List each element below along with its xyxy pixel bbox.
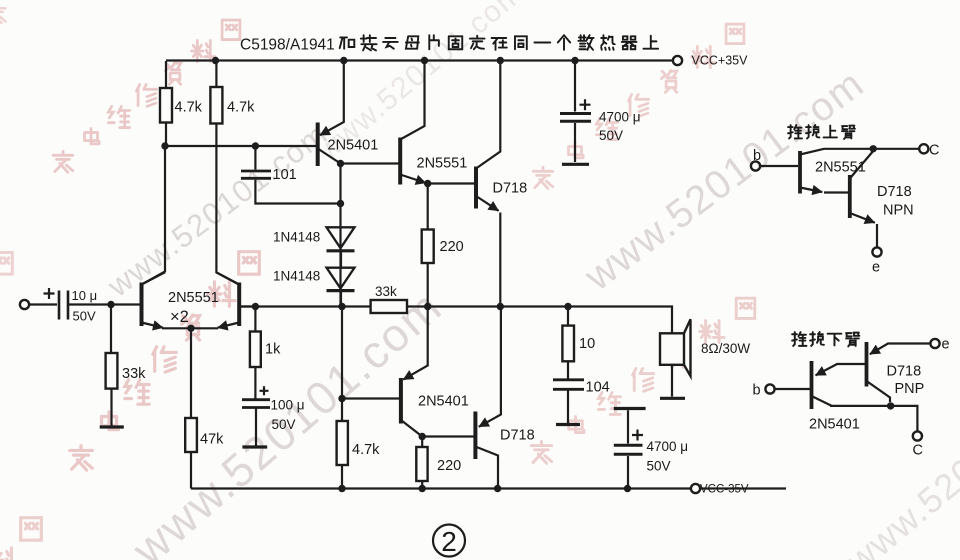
resistor R8 4.7k bottom bbox=[341, 399, 343, 489]
resistor R2 4.7k bbox=[216, 61, 239, 285]
transistor Q4b 2N5551 diff right bbox=[237, 283, 241, 327]
svg-text:b: b bbox=[753, 383, 761, 399]
watermark pink partial bottom-left corner bbox=[0, 518, 41, 560]
resistor R9 220 bottom bbox=[421, 437, 423, 489]
transistor Q3 D718 top bbox=[474, 167, 478, 209]
transistor Q6 D718 bottom bbox=[473, 412, 477, 460]
plus sign C4700 top bbox=[580, 99, 591, 110]
node dot Q5 collector bbox=[419, 433, 426, 440]
wire bottom supply rail bbox=[191, 487, 691, 489]
resistor R5 220 top bbox=[427, 184, 429, 307]
resistor R4 47k bbox=[190, 328, 192, 488]
terminal input bbox=[20, 300, 29, 309]
svg-text:50V: 50V bbox=[647, 459, 671, 474]
wire Q2 base bbox=[341, 162, 399, 164]
plus sign 100u bbox=[260, 386, 269, 395]
ground bar speaker bbox=[660, 397, 685, 400]
svg-text:NPN: NPN bbox=[883, 203, 914, 219]
svg-text:e: e bbox=[942, 337, 950, 353]
ground bar input bbox=[100, 425, 124, 428]
svg-text:4.7k: 4.7k bbox=[352, 442, 380, 458]
svg-text:8Ω/30W: 8Ω/30W bbox=[701, 341, 750, 356]
wire common emitters bbox=[162, 327, 218, 329]
svg-text:47k: 47k bbox=[200, 432, 224, 448]
watermark pink partial left edge bbox=[0, 5, 12, 274]
svg-text:104: 104 bbox=[586, 380, 610, 396]
node dot Q5 base bbox=[338, 395, 345, 402]
svg-text:b: b bbox=[753, 148, 761, 164]
wire between diodes bbox=[340, 251, 342, 267]
ground bar C4700 top bbox=[562, 163, 589, 166]
wire strike through VCC-35V label bbox=[700, 487, 786, 489]
inset lower: transistor D718 bbox=[865, 342, 869, 387]
wire top supply rail bbox=[166, 59, 673, 61]
svg-text:4700 μ: 4700 μ bbox=[599, 110, 641, 125]
svg-text:D718: D718 bbox=[887, 364, 922, 380]
terminal VCC+35V bbox=[673, 56, 682, 65]
svg-text:PNP: PNP bbox=[895, 381, 925, 397]
resistor R6 33k feedback bbox=[371, 300, 407, 313]
inset upper: terminal e bbox=[872, 247, 881, 256]
wire diff right base to mid rail bbox=[239, 305, 255, 307]
plus sign C4700 bottom bbox=[632, 430, 643, 441]
svg-text:4700 μ: 4700 μ bbox=[647, 439, 689, 454]
wire input to C10u bbox=[29, 303, 57, 305]
svg-text:10 μ: 10 μ bbox=[72, 288, 98, 303]
node dot Q1 collector bbox=[337, 160, 344, 167]
wire Q1 collector to diodes bbox=[339, 164, 341, 307]
svg-text:33k: 33k bbox=[375, 284, 397, 299]
svg-text:D718: D718 bbox=[493, 181, 528, 197]
svg-text:C: C bbox=[913, 443, 923, 459]
diode D1 1N4148 bbox=[327, 227, 355, 248]
svg-text:101: 101 bbox=[273, 167, 297, 183]
svg-text:33k: 33k bbox=[122, 366, 146, 382]
wire Q6 base bbox=[422, 435, 474, 437]
svg-text:1N4148: 1N4148 bbox=[273, 230, 320, 245]
wire Q5 base bbox=[342, 397, 399, 399]
ground bar 104 bbox=[556, 423, 580, 426]
node dot rail-Q2 collector bbox=[421, 57, 428, 64]
wire cap to diff base bbox=[68, 303, 140, 305]
svg-text:2: 2 bbox=[441, 526, 457, 557]
transistor Q2 2N5551 driver bbox=[398, 138, 402, 185]
svg-text:50V: 50V bbox=[599, 128, 623, 143]
wire D718 base bbox=[428, 182, 475, 184]
svg-text:VCC+35V: VCC+35V bbox=[692, 54, 749, 68]
ground bar C4700 bottom bbox=[614, 407, 646, 410]
svg-text:2N5551: 2N5551 bbox=[168, 290, 219, 306]
wire mid rail right bbox=[407, 307, 672, 334]
inset upper: wire b to base bbox=[760, 165, 798, 167]
wire top rail left drop to R1 bbox=[165, 61, 167, 88]
wire D718 emitter to mid rail bbox=[499, 213, 501, 307]
inset upper: wire to C bbox=[873, 148, 919, 150]
inset upper: transistor 2N5551 bbox=[798, 151, 802, 194]
svg-text:www.520101.com: www.520101.com bbox=[576, 61, 872, 299]
svg-text:×2: ×2 bbox=[170, 308, 189, 326]
wire bias node horizontal y146 bbox=[165, 145, 317, 147]
inset upper arm: terminal b bbox=[751, 161, 760, 170]
wire left collector riser bbox=[143, 146, 166, 284]
inset lower arm: terminal e bbox=[930, 339, 939, 348]
svg-text:D718: D718 bbox=[500, 428, 535, 444]
capacitor C4700 bottom bbox=[627, 410, 629, 488]
node dot rail-R2 bbox=[212, 57, 219, 64]
svg-text:VCC-35V: VCC-35V bbox=[700, 484, 749, 496]
inset upper: node dot collector bbox=[870, 145, 877, 152]
svg-text:50V: 50V bbox=[272, 417, 296, 432]
svg-text:D718: D718 bbox=[877, 184, 912, 200]
svg-text:C5198/A1941: C5198/A1941 bbox=[240, 37, 335, 54]
node dot rail-Q1 emitter bbox=[340, 57, 347, 64]
node dot left bias bbox=[161, 142, 168, 149]
node dot Q2 emitter / 220 top bbox=[424, 180, 431, 187]
wire D2 to mid rail bbox=[340, 291, 342, 307]
node dots mid rail bbox=[252, 303, 259, 310]
inset lower: terminal C bbox=[913, 431, 922, 440]
svg-text:C: C bbox=[929, 143, 939, 159]
inset upper: transistor D718 bbox=[848, 175, 852, 218]
svg-text:1N4148: 1N4148 bbox=[273, 269, 320, 284]
resistor R3 33k input bbox=[110, 305, 113, 426]
capacitor C 10u input bbox=[59, 291, 68, 320]
watermark pink diagonal lower-left: 家电维修资料网 bbox=[70, 252, 260, 470]
label hanzi 推挽上臂 bbox=[788, 125, 855, 139]
inset lower: transistor 2N5401 bbox=[810, 361, 814, 409]
svg-text:220: 220 bbox=[440, 239, 464, 255]
svg-text:4.7k: 4.7k bbox=[175, 100, 203, 116]
capacitor C 100u bbox=[242, 400, 270, 408]
svg-text:2N5551: 2N5551 bbox=[815, 160, 866, 176]
wire mid rail left bbox=[239, 305, 370, 307]
watermark pink diagonal lower-right: 家电维修资料网 bbox=[531, 298, 754, 463]
capacitor C4700 top bbox=[574, 61, 576, 163]
capacitor C104 bbox=[553, 380, 584, 390]
node dot rail-D718 collector bbox=[497, 57, 504, 64]
label title hanzi 加装云母片固定在同一个散热器上 bbox=[340, 35, 658, 50]
inset lower: wire b to base bbox=[775, 388, 810, 390]
diode D2 1N4148 bbox=[327, 268, 355, 289]
wire mid rail to Q5 base riser bbox=[341, 307, 343, 399]
inset lower: collector rail to C bbox=[830, 406, 917, 431]
speaker 8ohm 30W bbox=[660, 333, 684, 365]
symbol circled 2 bbox=[433, 525, 465, 557]
svg-text:2N5401: 2N5401 bbox=[809, 417, 860, 433]
transistor Q5 2N5401 bottom driver bbox=[399, 378, 403, 424]
inset lower: terminal b bbox=[765, 384, 774, 393]
capacitor C101 bbox=[255, 146, 340, 204]
watermark pink diagonal top-left: 家电维修资料网 bbox=[53, 20, 240, 172]
svg-text:e: e bbox=[872, 260, 880, 276]
inset lower: wire e to D718 bbox=[870, 344, 931, 355]
inset lower: node dot bbox=[887, 402, 894, 409]
node dots bottom rail bbox=[338, 485, 345, 492]
inset upper: terminal C bbox=[919, 144, 928, 153]
resistor R1 4.7k bbox=[165, 123, 167, 147]
transistor Q4a 2N5551 diff left bbox=[140, 283, 144, 327]
label hanzi 推挽下臂 bbox=[792, 332, 859, 346]
resistor R7 1k bbox=[254, 307, 256, 400]
ground bar 100u bbox=[242, 445, 267, 448]
svg-text:50V: 50V bbox=[73, 309, 96, 324]
svg-text:2N5401: 2N5401 bbox=[328, 138, 379, 154]
svg-text:2N5401: 2N5401 bbox=[418, 394, 469, 410]
svg-text:4.7k: 4.7k bbox=[227, 100, 255, 116]
node dot rail-C4700 bbox=[571, 57, 578, 64]
plus sign input cap bbox=[44, 288, 55, 299]
node dot input bias bbox=[107, 301, 114, 308]
svg-text:1k: 1k bbox=[265, 342, 281, 358]
svg-text:100 μ: 100 μ bbox=[271, 398, 305, 413]
transistor Q1 2N5401 top bbox=[316, 123, 320, 167]
node dot cap101 bottom junction bbox=[337, 200, 344, 207]
svg-text:10: 10 bbox=[579, 336, 595, 352]
node dot cap101 top bbox=[252, 142, 259, 149]
terminal VCC-35V bbox=[691, 484, 700, 493]
watermark pink diagonal top-right: 家电维修资料网 bbox=[533, 24, 744, 188]
resistor R10 10 output bbox=[567, 307, 569, 379]
svg-text:2N5551: 2N5551 bbox=[417, 156, 468, 172]
node dot common emitter bbox=[187, 325, 194, 332]
svg-text:220: 220 bbox=[437, 458, 461, 474]
